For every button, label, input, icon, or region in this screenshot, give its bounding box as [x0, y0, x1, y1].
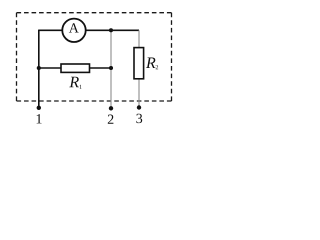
dashed enclosure box top edge	[17, 12, 172, 14]
label R2 letter R	[146, 58, 156, 68]
ammeter A1 circle	[62, 19, 85, 42]
terminal dot 3	[137, 105, 141, 109]
resistor R1	[61, 64, 90, 72]
label R1 letter R	[69, 77, 79, 87]
wire: left vertical branch to terminal 1	[38, 30, 40, 108]
label R2 subscript 2	[156, 65, 158, 69]
dashed enclosure box left edge	[16, 13, 18, 101]
wire: middle horizontal through R1	[39, 67, 111, 69]
terminal dot 2	[109, 106, 113, 110]
junction dot left middle node	[37, 66, 41, 70]
terminal label 1	[37, 114, 42, 123]
dashed enclosure box bottom edge	[17, 100, 172, 102]
junction dot right middle node	[109, 66, 113, 70]
terminal label 2	[108, 115, 114, 124]
dashed enclosure box right edge	[171, 13, 173, 101]
wire: vertical through R2 to terminal 3	[138, 30, 140, 108]
terminal label 3	[136, 114, 142, 123]
wire: top horizontal node A1 rail	[39, 29, 139, 31]
junction dot top node	[109, 28, 113, 32]
terminal dot 1	[37, 106, 41, 110]
wire: vertical to terminal 2	[110, 30, 112, 108]
label R1 subscript 1	[80, 85, 82, 89]
ammeter letter A	[69, 23, 79, 32]
resistor R2	[134, 48, 144, 79]
